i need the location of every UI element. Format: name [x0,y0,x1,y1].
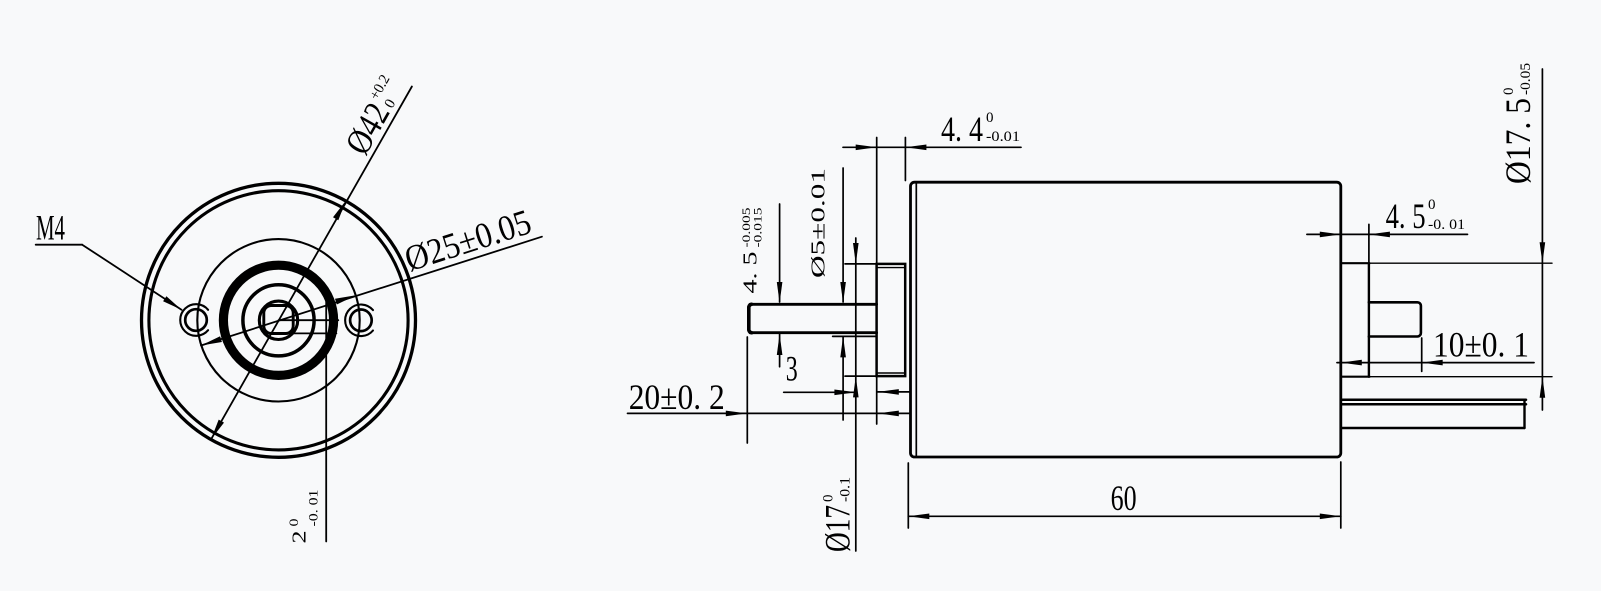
front shaft left end cap [749,304,752,332]
dim 10 right arrow [1422,360,1443,366]
dim Ø17 bottom arrow [853,376,859,397]
label Ø5±0.01 (rotated vertical) [809,168,830,278]
dim 4.5 bottom arrow [777,334,783,355]
dim 4.5 rear left arrow [1320,232,1341,238]
dim 4.4 left arrow [856,145,877,151]
dim 3 right arrow with tail [878,391,910,393]
dim 10 left arrow [1341,360,1362,366]
dim Ø17.5 bottom arrow [1540,377,1546,398]
front shaft top edge [750,303,877,306]
left mounting hole thread arc [180,304,208,336]
svg-text:2: 2 [290,531,311,544]
dim Ø17.5 dimension line [1541,69,1543,410]
bolt circle (Ø25) [197,239,359,401]
right mounting hole thread arc [345,305,373,337]
M4 leader arrow [163,296,181,310]
right mounting hole M4 minor circle [350,310,372,332]
svg-text:-0.01: -0.01 [986,129,1020,145]
dim Ø5 dimension line [842,168,844,302]
svg-text:0: 0 [986,110,994,126]
svg-text:-0.05: -0.05 [1518,63,1534,95]
front cap seam line [915,184,917,456]
Ø17 top extension line [845,263,877,265]
label Ø17.5 0/-0.05 (rotated vertical) [1498,63,1538,184]
svg-text:Ø17. 5: Ø17. 5 [1498,98,1538,184]
dim 3 left long arrow [834,390,856,396]
dim Ø17.5 top arrow [1540,242,1546,263]
dim 4.5 rear dimension line [1307,233,1468,235]
dim 20 left arrow [726,411,747,417]
M4 leader line [82,245,181,310]
front boss chamfer line bottom [878,372,904,374]
dim Ø5 bottom arrow [840,336,846,357]
label Ø25±0.05 (rotated along leader) [400,201,536,279]
motor outer body circle [142,183,416,457]
svg-text:-0. 01: -0. 01 [1428,217,1465,233]
svg-text:M4: M4 [36,208,65,248]
Ø25 leader line through center [201,237,542,346]
dim 60 extension lines [907,463,909,528]
dim 20 dimension line [628,412,911,414]
dim 10 extension line [1421,338,1423,371]
svg-text:Ø5±0.01: Ø5±0.01 [809,168,830,278]
svg-text:20±0. 2: 20±0. 2 [629,377,725,417]
Ø42 dimension line (diagonal through center) [211,87,412,440]
rear boss top edge and Ø17.5 top extension [1342,262,1370,264]
terminal strip top edge [1342,399,1526,402]
svg-text:-0.005: -0.005 [741,207,753,247]
shaft center reference line [279,319,339,321]
dim 60 right arrow [1320,514,1341,520]
dim 20 extension line (shaft end) [746,337,748,443]
svg-text:Ø17: Ø17 [818,505,858,552]
rear shaft stub [1369,302,1421,336]
svg-text:60: 60 [1111,478,1137,518]
shaft flat reference line [264,332,336,334]
dim 4.5 rear right arrow [1369,232,1390,238]
front shaft full-diameter bottom line [833,335,877,337]
dim 4.4 dimension line [843,146,1021,148]
svg-text:4. 5: 4. 5 [741,252,762,294]
dim 4.5 top arrow [777,282,783,303]
svg-text:0: 0 [821,495,837,503]
label 2 0/-0.01 (rotated vertical) [287,490,321,544]
front boss rectangle [877,264,906,376]
label Ø17 0/-0.1 (rotated vertical) [818,477,858,552]
dimension 2 extension line [325,300,327,542]
dim 60 dimension line [908,515,1341,517]
label Ø42 +0.2/0 (rotated along diagonal) [337,71,412,161]
dim 4.4 right arrow [905,145,926,151]
svg-text:0: 0 [1501,88,1517,96]
Ø25 arrow upper right at ring [335,295,356,304]
front cap seam circle [149,191,408,450]
Ø25 arrow lower left [201,336,222,345]
dim 4.5 rear extension line [1368,224,1370,262]
Ø42 arrow upper right [333,201,346,221]
front boss chamfer line top [878,267,904,269]
rear boss right face [1368,263,1370,377]
svg-text:-0.1: -0.1 [838,477,854,502]
dim 10 dimension line [1337,362,1534,364]
terminal strip right cap [1523,400,1525,428]
svg-text:0: 0 [287,519,301,527]
dim 60 left arrow [908,514,929,520]
dim Ø5 top arrow [840,282,846,303]
dim 3 dimension line [784,391,857,393]
bearing circle [243,285,314,356]
svg-text:3: 3 [786,348,798,388]
boss thick ring (Ø17 boss) [223,265,333,375]
shaft clearance circle [259,301,297,339]
motor body rectangle [911,182,1341,457]
terminal strip inner line [1342,403,1526,406]
label 4.5 -0.005/-0.015 (rotated vertical) [741,207,765,293]
terminal strip bottom edge [1342,427,1525,429]
Ø17 bottom extension line [845,375,877,377]
svg-text:-0.015: -0.015 [753,207,765,247]
svg-text:10±0. 1: 10±0. 1 [1433,325,1529,365]
left mounting hole M4 minor circle [185,309,207,331]
front shaft flat bottom edge [750,331,877,334]
svg-text:-0. 01: -0. 01 [306,490,321,527]
dim Ø17 dimension line [855,238,857,551]
dim 4.5 front shaft flats: dimension line [779,204,781,302]
dim 4.4 extension line 2 (boss rear face extended) [904,138,906,181]
Ø42 arrow lower left [211,420,224,440]
rear boss bottom edge and Ø17.5 bottom extension [1342,376,1370,378]
svg-text:0: 0 [1428,197,1436,213]
dim 20 right arrow [878,411,899,417]
shaft cross-section rounded square [264,306,293,334]
M4 leader underline [36,244,82,246]
svg-text:4. 4: 4. 4 [941,109,983,149]
dim Ø17 top arrow [853,243,859,264]
dim 4.4 extension line 1 (boss front face extended) [876,138,878,265]
svg-text:4. 5: 4. 5 [1386,196,1426,236]
